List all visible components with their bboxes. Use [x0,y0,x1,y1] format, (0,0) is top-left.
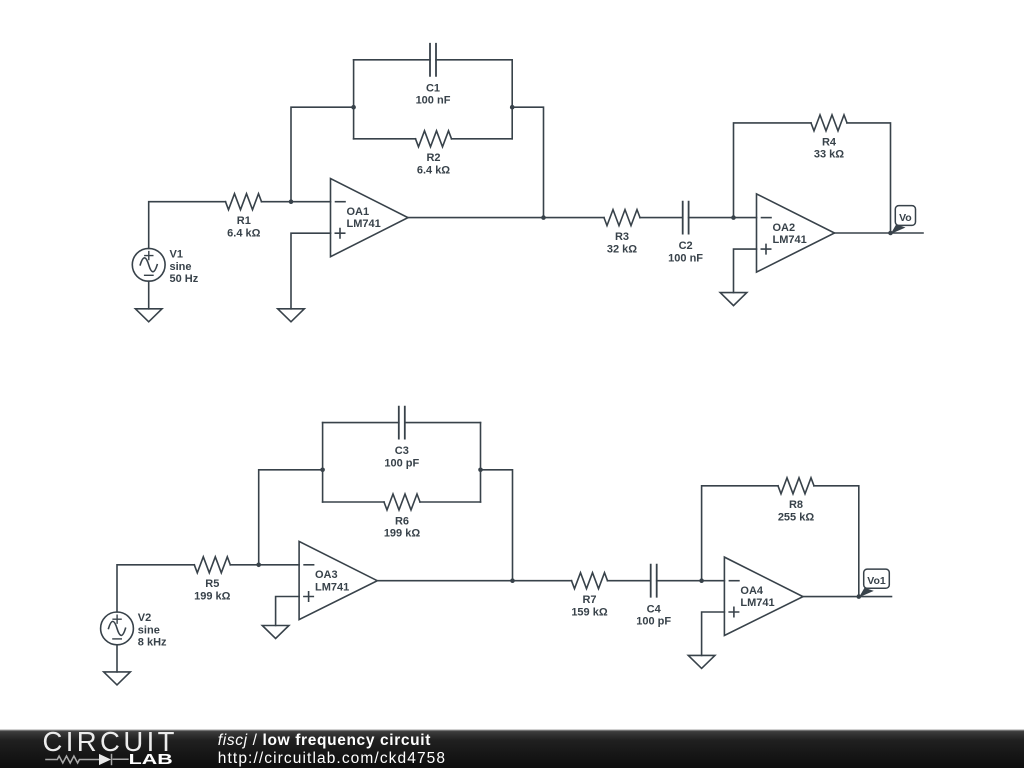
svg-text:OA1: OA1 [347,206,370,218]
wire OA2 plus input to ground [734,249,757,293]
wire V1 top to R1 [149,202,226,249]
voltage source V1 [132,248,165,281]
svg-text:OA3: OA3 [315,569,338,581]
svg-text:OA4: OA4 [740,585,764,597]
svg-text:8 kHz: 8 kHz [138,637,167,649]
flag Vo [891,206,916,234]
wire feedback riser left 2 [259,470,323,565]
node box2 left junction [320,468,325,473]
V1 plus glyph [145,252,153,260]
svg-text:sine: sine [170,261,192,273]
OA1 minus glyph [336,201,346,203]
resistor R2 [416,131,452,147]
label C4 value [636,603,671,627]
wire box2 bottom edge [323,501,481,503]
op-amp U2 triangle OA2 [757,194,835,272]
wire box top edge [354,59,513,61]
label C3 value [384,445,419,469]
svg-text:199 kΩ: 199 kΩ [194,591,231,603]
wire OA4 output [803,596,892,598]
svg-text:32 kΩ: 32 kΩ [607,243,637,255]
wire V2 bottom to ground [116,645,118,672]
label R2 value [417,152,450,176]
label V1 value [170,249,199,286]
node A junction [289,199,294,204]
footer bar [0,730,1024,768]
label OA1 value [347,206,381,230]
OA2 minus glyph [762,217,772,219]
svg-text:LAB: LAB [129,751,173,768]
label R8 value [778,499,815,523]
V2 plus glyph [113,615,121,623]
resistor R5 [194,557,230,573]
wire OA4 plus input to ground [702,612,725,655]
V2 sine glyph [109,621,126,635]
ground OA1 plus [278,309,305,322]
node box1 left junction [351,105,356,110]
wire OA2 output [835,232,924,234]
label R1 value [227,215,260,239]
svg-text:LM741: LM741 [347,218,381,230]
svg-text:R3: R3 [615,231,629,243]
svg-text:Vo: Vo [899,212,912,224]
feedback box2 left edge [322,423,324,502]
wire V1 bottom to ground [148,281,150,309]
svg-text:6.4 kΩ: 6.4 kΩ [227,227,260,239]
svg-text:100 nF: 100 nF [416,95,451,107]
svg-text:R6: R6 [395,515,409,527]
OA1 plus glyph [335,229,344,238]
svg-text:R1: R1 [237,215,251,227]
label R6 value [384,515,421,539]
V1 minus glyph [145,274,153,276]
svg-text:159 kΩ: 159 kΩ [571,606,608,618]
wire feedback riser left [291,107,354,202]
svg-text:100 nF: 100 nF [668,253,703,265]
svg-text:199 kΩ: 199 kΩ [384,528,421,540]
node box2 right junction [510,578,515,583]
node box2 right top junction [478,468,483,473]
wire box to output node [512,107,543,217]
resistor R7 [572,573,608,589]
label OA3 value [315,569,349,593]
capacitor C3 [399,407,405,439]
ground OA4 plus [688,655,715,668]
wire R1 to OA1 minus input [262,201,331,203]
label R4 value [814,136,844,160]
wire R3 to C2 [640,217,683,219]
node OA2 minus junction [731,215,736,220]
label OA2 value [773,222,807,246]
svg-text:C4: C4 [647,603,662,615]
ground V1 [135,309,162,322]
svg-text:R7: R7 [582,594,596,606]
node box1 right junction [510,105,515,110]
wire OA3 plus input to ground [276,597,300,626]
svg-text:255 kΩ: 255 kΩ [778,512,815,524]
flag Vo1 [859,569,889,597]
op-amp U3 triangle OA3 [299,541,377,619]
resistor R6 [384,494,420,510]
svg-text:LM741: LM741 [740,597,774,609]
feedback box right edge [511,60,513,139]
svg-text:C2: C2 [679,240,693,252]
feedback box left edge [353,60,355,139]
svg-text:R4: R4 [822,136,837,148]
ground V2 [104,672,131,685]
svg-text:V1: V1 [170,249,183,261]
capacitor C4 [651,565,657,597]
svg-text:100 pF: 100 pF [636,616,671,628]
svg-text:C1: C1 [426,82,440,94]
svg-text:OA2: OA2 [773,222,796,234]
resistor R4 [811,115,847,131]
wire OA4 feedback loop [702,486,859,597]
wire box2 top edge [323,422,481,424]
svg-text:50 Hz: 50 Hz [170,273,199,285]
logo diode [99,754,111,765]
svg-text:R8: R8 [789,499,803,511]
resistor R1 [226,194,262,210]
svg-text:LM741: LM741 [315,582,349,594]
svg-text:Vo1: Vo1 [867,575,886,587]
wire box2 to output node 2 [481,470,513,581]
capacitor C1 [430,44,436,76]
svg-text:LM741: LM741 [773,234,807,246]
node B junction [256,563,261,568]
svg-text:V2: V2 [138,612,151,624]
resistor R8 [778,478,814,494]
label R7 value [571,594,608,618]
voltage source V2 [101,612,134,645]
node OA1 output junction [541,215,546,220]
svg-text:http://circuitlab.com/ckd4758: http://circuitlab.com/ckd4758 [218,750,446,767]
svg-text:sine: sine [138,624,160,636]
wire OA2 feedback loop [734,123,891,233]
label OA4 value [740,585,774,609]
op-amp U4 triangle OA4 [724,557,803,635]
OA2 plus glyph [761,244,770,253]
OA3 minus glyph [304,564,314,566]
wire V2 top to R5 [117,565,194,612]
svg-text:R5: R5 [205,578,219,590]
wire OA1 plus input to ground [291,233,331,309]
wire R5 to OA3 minus input [230,564,299,566]
feedback box2 right edge [480,423,482,502]
OA4 plus glyph [729,607,738,616]
logo waveform [45,754,129,765]
V1 sine glyph [140,258,157,272]
wire C4 to OA4 minus input [657,580,725,582]
label C1 value [416,82,451,106]
wire OA1 output to R3 [408,217,604,219]
svg-text:6.4 kΩ: 6.4 kΩ [417,165,450,177]
label C2 value [668,240,703,264]
op-amp U1 triangle OA1 [331,179,409,257]
wire C2 to OA2 minus input [689,217,757,219]
label V2 value [138,612,167,649]
resistor R3 [604,210,640,226]
wire R7 to C4 [608,580,651,582]
node Vo junction [888,231,893,236]
wire OA3 output to R7 [377,580,571,582]
svg-text:33 kΩ: 33 kΩ [814,149,844,161]
svg-text:100 pF: 100 pF [384,458,419,470]
label R5 value [194,578,231,602]
node Vo1 junction [857,594,862,599]
ground OA3 plus [262,626,289,639]
ground OA2 plus [720,293,747,306]
svg-text:R2: R2 [426,152,440,164]
node OA4 minus junction [699,578,704,583]
label R3 value [607,231,637,255]
capacitor C2 [683,202,689,234]
OA3 plus glyph [304,592,313,601]
svg-text:fiscj / low frequency circuit: fiscj / low frequency circuit [218,732,431,749]
wire box bottom edge [354,138,513,140]
OA4 minus glyph [729,580,739,582]
svg-text:C3: C3 [395,445,409,457]
V2 minus glyph [113,638,121,640]
